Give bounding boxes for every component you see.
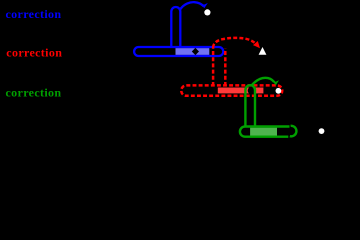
blue mRNA: light coding-region rect (176, 48, 210, 55)
green hairpin (loops over black dot) (245, 85, 255, 127)
red dashed correction arc (213, 38, 255, 48)
blue mRNA pill outline (134, 47, 223, 56)
svg-text:correction: correction (6, 46, 62, 60)
green pill right end cap (290, 126, 297, 137)
red dashed stem left (212, 48, 215, 87)
green correction arc (252, 78, 275, 86)
svg-text:correction: correction (6, 7, 62, 21)
white corrected dot (blue row) (204, 9, 210, 15)
green mRNA: coding rect (250, 128, 277, 136)
white triangle (insertion site) (259, 47, 267, 55)
green mRNA pill outline (open right end) (240, 127, 290, 137)
red mRNA: salmon coding rect (218, 88, 264, 94)
blue correction arc (180, 2, 203, 9)
red dashed stem right (224, 49, 227, 87)
mutation black dot on red mRNA (248, 87, 256, 95)
green arrowhead (272, 80, 279, 85)
blue hairpin stem (171, 7, 180, 48)
mutation diamond on blue mRNA (192, 48, 199, 55)
red arrowhead (253, 41, 260, 48)
red mRNA dashed pill outline (181, 85, 282, 95)
white dot right of green mRNA (319, 128, 325, 134)
svg-text:correction: correction (6, 85, 62, 99)
white corrected dot (red row) (276, 88, 282, 94)
blue arrowhead (200, 3, 208, 8)
